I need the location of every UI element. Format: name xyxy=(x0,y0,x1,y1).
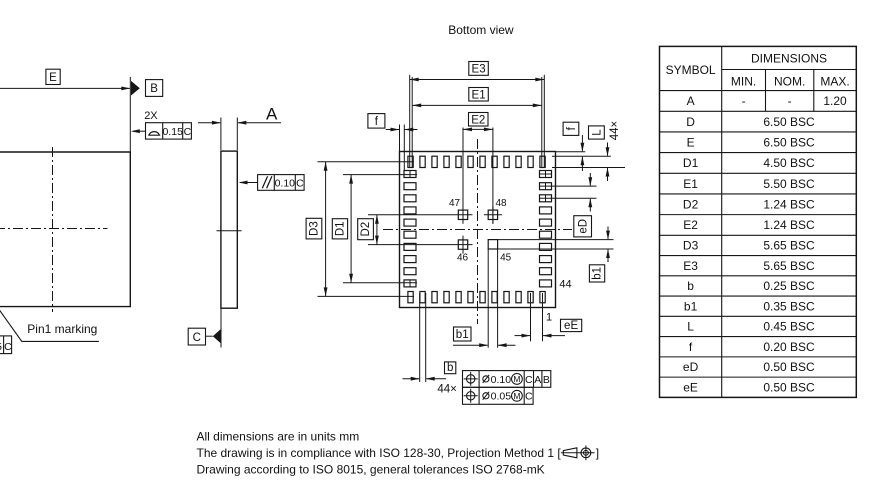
b dimension arrows xyxy=(403,378,420,380)
svg-text:0.15: 0.15 xyxy=(162,126,183,138)
svg-text:f: f xyxy=(689,340,693,354)
svg-text:1.20: 1.20 xyxy=(823,94,847,108)
svg-text:46: 46 xyxy=(457,252,469,263)
svg-text:b1: b1 xyxy=(592,267,604,280)
D1 label xyxy=(332,219,347,239)
svg-text:E: E xyxy=(687,135,695,149)
svg-text:A: A xyxy=(687,94,695,108)
svg-text:44×: 44× xyxy=(609,121,621,141)
E2 dimension line xyxy=(463,128,493,130)
svg-text:0.05: 0.05 xyxy=(491,391,512,403)
eD extension lines xyxy=(540,185,597,187)
svg-text:A: A xyxy=(266,105,278,124)
svg-text:b1: b1 xyxy=(684,299,698,313)
b1 dimension arrows right xyxy=(607,227,609,240)
package top edge extension right xyxy=(556,151,585,153)
svg-text:0.25 BSC: 0.25 BSC xyxy=(763,279,815,293)
package body outline xyxy=(400,152,556,308)
svg-text:C: C xyxy=(4,341,12,353)
svg-text:0.20 BSC: 0.20 BSC xyxy=(763,340,815,354)
D1 extension lines xyxy=(343,174,417,176)
D2 dimension line xyxy=(376,215,378,245)
right pin column xyxy=(540,171,552,178)
svg-text:2X: 2X xyxy=(144,110,158,122)
dimension E label xyxy=(46,69,60,84)
profile tolerance frame 0.15 C xyxy=(146,123,192,139)
svg-text:D2: D2 xyxy=(360,222,372,237)
top pin row xyxy=(408,156,413,167)
left pin column xyxy=(404,171,416,178)
svg-text:NOM.: NOM. xyxy=(774,74,805,88)
svg-text:]: ] xyxy=(596,446,599,460)
dimension E leader line xyxy=(0,87,130,89)
svg-text:0.45 BSC: 0.45 BSC xyxy=(763,320,815,334)
svg-text:0.50 BSC: 0.50 BSC xyxy=(763,360,815,374)
svg-text:C: C xyxy=(184,126,192,138)
extension line at right edge of left view xyxy=(129,77,131,152)
f label right xyxy=(563,122,579,135)
svg-text:C: C xyxy=(525,391,533,403)
svg-text:eE: eE xyxy=(564,320,578,332)
leader arrow from profile frame xyxy=(133,130,146,132)
svg-text:0.50 BSC: 0.50 BSC xyxy=(763,380,815,394)
b label xyxy=(445,362,456,374)
svg-text:6.50 BSC: 6.50 BSC xyxy=(763,115,815,129)
svg-text:E1: E1 xyxy=(472,89,486,101)
dimension table grid xyxy=(721,46,723,397)
svg-text:D2: D2 xyxy=(683,197,699,211)
b1 extension lines bottom xyxy=(487,249,489,348)
L dimension arrows right xyxy=(607,143,609,156)
svg-text:1.24 BSC: 1.24 BSC xyxy=(763,218,815,232)
svg-text:The drawing is in compliance w: The drawing is in compliance with ISO 12… xyxy=(197,446,562,460)
left view vertical centerline xyxy=(52,147,54,312)
datum C triangle xyxy=(213,329,221,344)
b1 label bottom xyxy=(454,327,472,341)
datum C label xyxy=(188,328,205,345)
pin1 marking leader xyxy=(0,307,99,342)
svg-text:DIMENSIONS: DIMENSIONS xyxy=(751,51,827,65)
first angle projection symbol xyxy=(563,448,577,458)
left view horizontal centerline xyxy=(0,228,108,230)
svg-text:eD: eD xyxy=(578,219,590,234)
svg-text:A: A xyxy=(534,374,541,386)
b extension lines xyxy=(419,293,421,382)
E3 dimension line xyxy=(410,79,545,81)
svg-text:E3: E3 xyxy=(472,64,486,76)
right pin 2 cross xyxy=(545,183,547,190)
svg-text:-: - xyxy=(788,94,792,108)
svg-text:Pin1 marking: Pin1 marking xyxy=(27,322,97,336)
datum C leader xyxy=(206,335,213,337)
thermal pad 47 xyxy=(458,210,467,219)
E3 label xyxy=(469,62,489,76)
svg-text:Bottom view: Bottom view xyxy=(448,23,514,37)
svg-text:D1: D1 xyxy=(683,156,699,170)
right pin 3 cross xyxy=(545,195,547,202)
svg-text:M: M xyxy=(513,374,520,384)
L label right xyxy=(589,126,605,139)
side view outline xyxy=(221,151,237,308)
bottom pin row xyxy=(408,292,413,303)
eE dimension arrows xyxy=(515,335,531,337)
svg-text:eE: eE xyxy=(683,380,698,394)
side view center tick xyxy=(217,230,242,232)
datum B triangle xyxy=(131,81,140,96)
svg-text:D1: D1 xyxy=(334,221,346,236)
svg-text:b: b xyxy=(447,362,453,374)
svg-text:0.10: 0.10 xyxy=(275,177,296,189)
svg-text:b: b xyxy=(687,279,694,293)
svg-text:D3: D3 xyxy=(309,221,321,236)
eE extension lines xyxy=(530,293,532,341)
svg-text:C: C xyxy=(525,374,533,386)
svg-text:E2: E2 xyxy=(683,218,698,232)
svg-text:47: 47 xyxy=(449,198,461,209)
svg-text:E3: E3 xyxy=(683,259,698,273)
pin bottom edge extension right xyxy=(552,167,625,169)
svg-text:4.50 BSC: 4.50 BSC xyxy=(763,156,815,170)
svg-text:L: L xyxy=(687,320,694,334)
pin top edge extension right xyxy=(552,155,611,157)
svg-text:D3: D3 xyxy=(683,239,699,253)
svg-text:C: C xyxy=(193,332,201,344)
position tolerance frame row 1 xyxy=(463,371,551,388)
b1 dimension arrows bottom xyxy=(453,344,488,346)
svg-text:E: E xyxy=(49,72,57,84)
svg-text:5.50 BSC: 5.50 BSC xyxy=(763,177,815,191)
svg-text:B: B xyxy=(150,83,158,95)
svg-text:eD: eD xyxy=(683,360,699,374)
package vertical centerline xyxy=(477,139,479,324)
D3 extension lines xyxy=(318,161,415,163)
E2 extension lines xyxy=(462,128,464,224)
svg-text:C: C xyxy=(296,177,304,189)
svg-text:D: D xyxy=(686,115,695,129)
dimension table outer border xyxy=(660,46,857,397)
svg-text:6.50 BSC: 6.50 BSC xyxy=(763,135,815,149)
thermal pad 48 xyxy=(488,210,497,219)
left pin 1 cross xyxy=(409,171,411,178)
svg-text:MAX.: MAX. xyxy=(820,74,849,88)
svg-text:M: M xyxy=(513,391,520,401)
thermal pad 46 xyxy=(458,240,467,249)
svg-text:0.10: 0.10 xyxy=(491,374,512,386)
eD dimension arrows xyxy=(589,173,591,186)
position tolerance frame row 2 xyxy=(463,387,534,404)
svg-text:45: 45 xyxy=(500,252,512,263)
package horizontal centerline xyxy=(383,229,572,231)
left pin 10 cross xyxy=(409,280,411,287)
svg-text:E2: E2 xyxy=(471,114,485,126)
eE label xyxy=(561,319,582,331)
f dimension arrows right xyxy=(581,135,583,151)
svg-text:44: 44 xyxy=(559,279,571,291)
f dimension label top left xyxy=(368,114,385,129)
left view package outline xyxy=(0,152,130,307)
leader arrow from parallelism frame xyxy=(240,182,258,184)
svg-text:5.65 BSC: 5.65 BSC xyxy=(763,239,815,253)
E1 label xyxy=(469,88,489,102)
svg-text:1: 1 xyxy=(546,312,552,324)
svg-text:5: 5 xyxy=(0,341,2,353)
svg-text:All dimensions are in units mm: All dimensions are in units mm xyxy=(197,429,360,443)
svg-text:44×: 44× xyxy=(437,383,457,395)
D3 label xyxy=(306,218,322,239)
E1 dimension line xyxy=(412,104,542,106)
E3 extension lines xyxy=(409,75,411,168)
svg-text:48: 48 xyxy=(495,198,507,209)
b1 extension lines right xyxy=(498,239,614,241)
partial tolerance frame at left edge xyxy=(0,336,12,354)
svg-text:-: - xyxy=(742,94,746,108)
eD label xyxy=(574,216,592,237)
svg-text:f: f xyxy=(566,126,578,130)
f extension lines top left xyxy=(399,125,401,152)
D1 dimension line xyxy=(350,175,352,283)
thermal pad 45 xyxy=(488,240,497,249)
svg-text:L: L xyxy=(591,129,603,136)
D2 label xyxy=(358,219,374,240)
datum B label xyxy=(146,80,163,97)
dimension A arrows xyxy=(198,122,220,124)
D2 extension lines xyxy=(368,214,473,216)
svg-text:B: B xyxy=(543,374,550,386)
svg-text:MIN.: MIN. xyxy=(731,74,756,88)
f dimension arrows top left xyxy=(386,129,400,131)
E2 label xyxy=(469,113,489,127)
E1 extension lines xyxy=(411,77,413,168)
right pin 1 cross xyxy=(540,173,552,175)
svg-text:5.65 BSC: 5.65 BSC xyxy=(763,259,815,273)
parallelism tolerance frame xyxy=(258,175,305,191)
datum C extension line xyxy=(220,308,222,347)
svg-text:E1: E1 xyxy=(683,177,698,191)
svg-text:Drawing according to ISO 8015,: Drawing according to ISO 8015, general t… xyxy=(197,463,545,477)
svg-text:f: f xyxy=(375,116,379,128)
svg-text:1.24 BSC: 1.24 BSC xyxy=(763,197,815,211)
svg-text:0.35 BSC: 0.35 BSC xyxy=(763,299,815,313)
svg-text:SYMBOL: SYMBOL xyxy=(666,63,716,77)
D3 dimension line xyxy=(325,162,327,297)
dimension A extension lines xyxy=(220,118,222,151)
svg-text:b1: b1 xyxy=(456,329,469,341)
b1 label right xyxy=(589,265,604,282)
